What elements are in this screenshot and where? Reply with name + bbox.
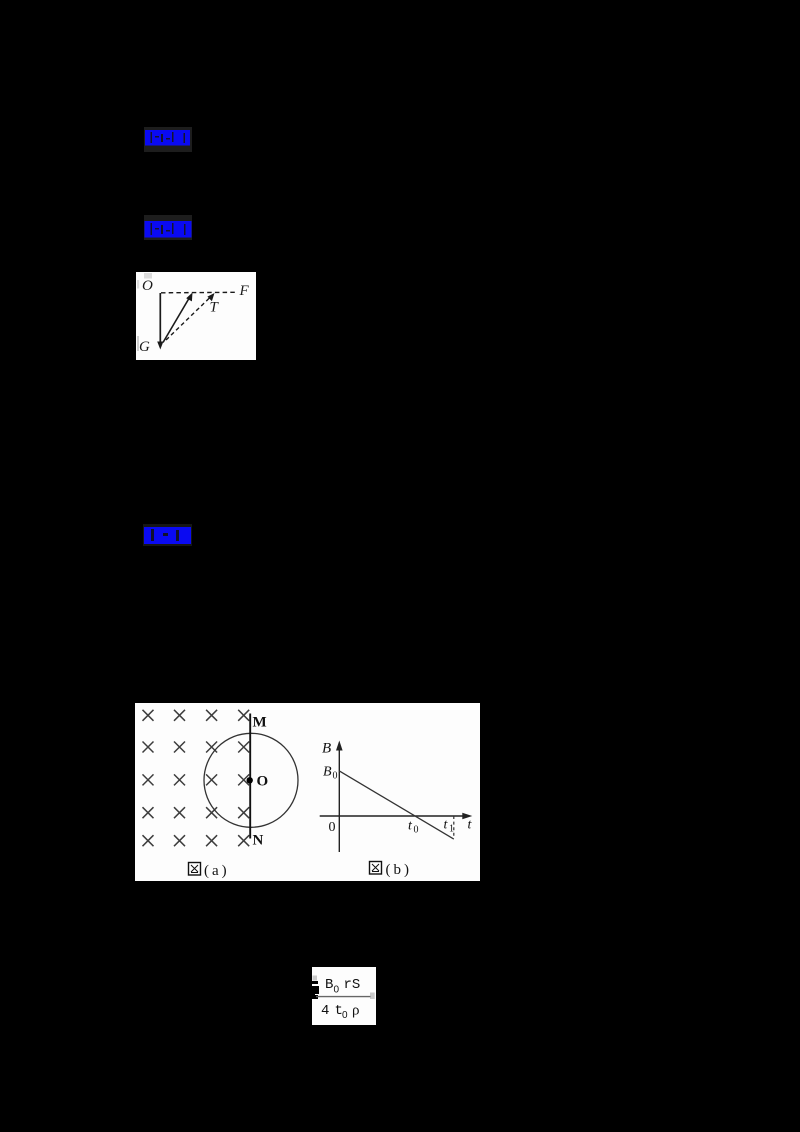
svg-text:0: 0 bbox=[334, 985, 340, 996]
magnetic field + graph figure box bbox=[135, 703, 480, 881]
partial glyph at left edge bbox=[312, 981, 319, 999]
declining B line bbox=[339, 771, 454, 839]
svg-text:0: 0 bbox=[414, 825, 419, 836]
vector G (weight, downward arrow) bbox=[157, 293, 163, 350]
svg-text:0: 0 bbox=[342, 1010, 348, 1021]
blue label 2 (【解答】) bbox=[144, 215, 192, 240]
gray selection handle right bbox=[370, 993, 375, 1000]
center dot O bbox=[247, 777, 253, 783]
svg-text:0: 0 bbox=[329, 820, 336, 835]
gray artifact square top-left bbox=[144, 273, 152, 279]
svg-text:M: M bbox=[253, 715, 267, 731]
resultant solid arrow bbox=[163, 293, 193, 343]
tension T dashed arrow bbox=[166, 293, 215, 340]
gray artifact bar left bbox=[137, 280, 139, 289]
wire MN bbox=[249, 714, 251, 839]
svg-text:B: B bbox=[325, 977, 333, 993]
blue label 1 (【分析】) bbox=[144, 127, 192, 152]
svg-text:(b): (b) bbox=[386, 862, 413, 878]
t axis (horizontal) bbox=[320, 813, 473, 819]
svg-text:F: F bbox=[239, 283, 250, 299]
svg-text:N: N bbox=[253, 833, 264, 849]
caption 图(a) glyph bbox=[189, 863, 201, 876]
force diagram figure box bbox=[136, 272, 256, 360]
svg-text:G: G bbox=[139, 339, 150, 355]
gray artifact bar near G bbox=[137, 336, 139, 351]
B axis (vertical) bbox=[336, 741, 343, 853]
svg-text:(a): (a) bbox=[204, 863, 230, 879]
caption 图(b) glyph bbox=[370, 862, 382, 875]
fraction bar bbox=[316, 996, 371, 998]
svg-text:B: B bbox=[323, 765, 332, 780]
field cross grid bbox=[134, 702, 136, 704]
svg-text:4: 4 bbox=[321, 1003, 329, 1019]
svg-text:rS: rS bbox=[344, 977, 361, 993]
svg-text:O: O bbox=[257, 774, 269, 790]
circular loop bbox=[204, 733, 298, 827]
svg-text:B: B bbox=[322, 741, 331, 757]
svg-text:ρ: ρ bbox=[352, 1003, 360, 1019]
svg-text:0: 0 bbox=[333, 771, 338, 782]
formula box (B0 r S / 4 t0 rho) bbox=[312, 967, 376, 1025]
svg-text:T: T bbox=[210, 300, 220, 316]
svg-text:O: O bbox=[142, 278, 153, 294]
svg-text:t: t bbox=[468, 818, 473, 833]
dashed line at t1 bbox=[453, 816, 455, 838]
svg-text:t: t bbox=[408, 819, 413, 834]
blue label 3 (【点评】) bbox=[143, 524, 192, 546]
dashed horizontal line to F bbox=[161, 291, 237, 294]
gray selection handle left bbox=[313, 976, 318, 981]
svg-text:t: t bbox=[444, 818, 449, 833]
